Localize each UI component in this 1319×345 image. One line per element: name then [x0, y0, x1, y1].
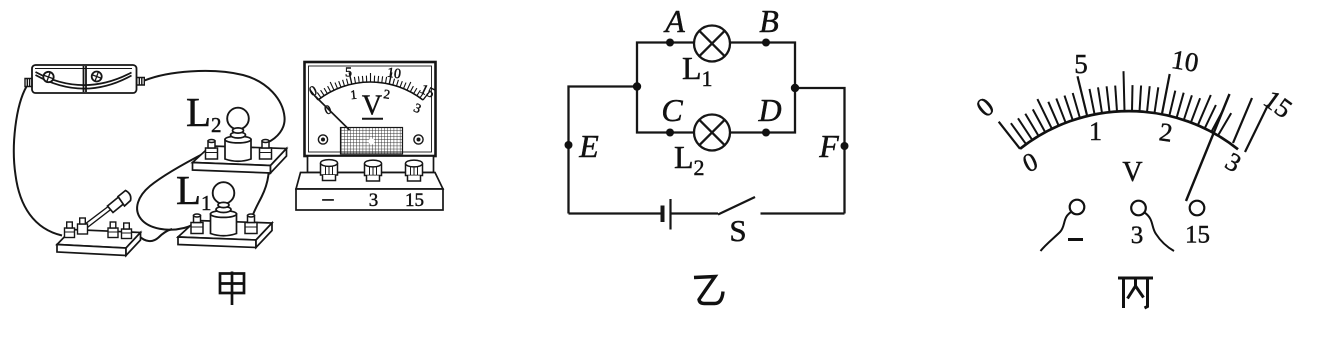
wire bottom branch through C and D	[637, 88, 795, 133]
svg-text:B: B	[759, 3, 779, 39]
svg-text:L2: L2	[186, 89, 222, 137]
switch S blade (open)	[718, 197, 755, 215]
svg-text:V: V	[362, 91, 382, 122]
svg-text:5: 5	[1074, 49, 1088, 79]
lamp L1 (pictorial, on base)	[178, 182, 272, 247]
svg-text:0: 0	[970, 91, 1000, 123]
svg-text:5: 5	[345, 66, 352, 81]
terminal 15	[1190, 201, 1205, 216]
wire lamp L2 right post to lamp L1 right post	[253, 155, 269, 216]
wire left rail through E	[569, 87, 638, 214]
node A	[666, 39, 674, 47]
svg-text:D: D	[757, 92, 781, 128]
dial arc (丙)	[1020, 111, 1238, 149]
junction node left	[633, 82, 641, 90]
node F	[841, 142, 849, 150]
wire top branch through A and B	[637, 43, 795, 87]
node C	[666, 129, 674, 137]
wire switch to right rail	[761, 212, 845, 214]
wire battery positive to lamp L2 right post	[145, 71, 285, 143]
lamp L2 (乙 symbol)	[694, 115, 730, 151]
svg-text:0: 0	[1018, 147, 1042, 179]
lamp L1 (乙 symbol)	[694, 26, 730, 62]
dial tick marks	[999, 71, 1268, 152]
svg-text:L1: L1	[176, 167, 212, 215]
node D	[762, 129, 770, 137]
svg-text:F: F	[818, 128, 839, 164]
svg-text:10: 10	[386, 66, 402, 83]
wire right rail through F	[795, 88, 845, 214]
svg-text:10: 10	[1169, 44, 1200, 78]
svg-text:3: 3	[1220, 147, 1246, 179]
svg-text:3: 3	[1131, 222, 1144, 249]
node E	[565, 141, 573, 149]
node B	[762, 39, 770, 47]
svg-text:–: –	[322, 185, 335, 210]
svg-text:2: 2	[1157, 117, 1174, 148]
svg-text:15: 15	[405, 190, 424, 211]
battery cell (乙)	[663, 199, 671, 230]
wire battery negative to switch	[14, 87, 62, 236]
terminal 3	[1131, 201, 1174, 251]
label 甲 (jia)	[220, 272, 244, 306]
svg-text:V: V	[1122, 157, 1142, 188]
svg-text:15: 15	[1258, 84, 1297, 124]
switch S1 (knife switch, open)	[57, 191, 141, 256]
svg-text:C: C	[661, 92, 683, 128]
battery pack BT (two cells in holder)	[25, 65, 144, 93]
wire bottom left segment to battery	[569, 212, 662, 214]
svg-text:A: A	[663, 3, 685, 39]
voltmeter V (pictorial panel meter)	[305, 62, 436, 156]
terminal minus	[1041, 200, 1085, 251]
junction node right	[791, 84, 799, 92]
label 丙 (bing)	[1118, 278, 1153, 308]
dial outer scale numbers 0 5 10 15	[970, 44, 1298, 124]
wire battery to switch	[672, 212, 719, 214]
wire switch right post to lamp L1 left post	[139, 229, 173, 241]
label 乙 (yi)	[694, 277, 723, 304]
svg-text:1: 1	[1089, 117, 1102, 146]
lamp L2 (pictorial, on base)	[193, 108, 287, 173]
dial inner scale numbers 0 1 2 3	[1018, 117, 1246, 178]
svg-text:3: 3	[369, 190, 379, 211]
needle	[1186, 94, 1230, 201]
svg-text:15: 15	[1185, 222, 1210, 249]
wire lamp L2 left post to lamp L1 left post	[137, 153, 205, 230]
svg-text:S: S	[729, 213, 746, 248]
svg-text:E: E	[578, 128, 599, 164]
